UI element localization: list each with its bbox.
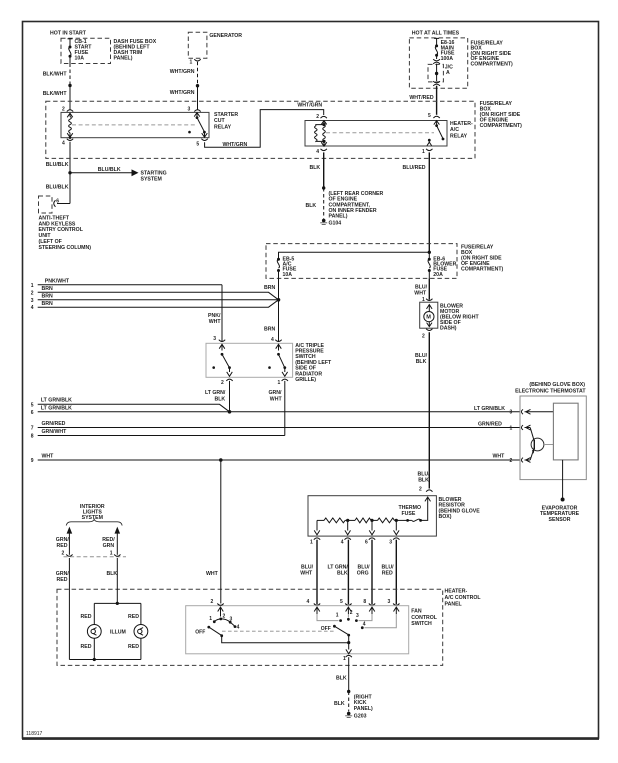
svg-text:10A: 10A: [283, 272, 293, 278]
svg-text:2: 2: [510, 458, 513, 464]
svg-text:STARTER: STARTER: [214, 112, 238, 118]
fuse EB-5 A/C FUSE 10A: [277, 258, 280, 279]
svg-text:4: 4: [363, 622, 366, 628]
svg-text:RELAY: RELAY: [450, 134, 468, 140]
wire WHT/GRN solid: [197, 86, 199, 110]
ground G104: [322, 219, 326, 223]
wire 2 BRN: [38, 292, 279, 300]
A/C triple pressure switch box: [206, 343, 293, 377]
coil heater A/C relay: [321, 121, 326, 125]
svg-text:COMPARTMENT): COMPARTMENT): [471, 62, 514, 68]
svg-text:DASH): DASH): [440, 326, 457, 332]
svg-text:BLK: BLK: [416, 359, 427, 365]
arrow to starting system: [132, 169, 139, 176]
svg-text:5: 5: [340, 599, 343, 605]
pin 4 connector resistor: [345, 538, 351, 540]
resistor R2: [355, 518, 371, 523]
svg-text:2: 2: [419, 487, 422, 493]
svg-text:BRN: BRN: [264, 285, 275, 291]
svg-text:1: 1: [310, 540, 313, 546]
svg-text:WHT/GRN: WHT/GRN: [170, 90, 195, 96]
lamp bottom bus: [69, 659, 140, 661]
generator (dashed box): [188, 32, 207, 58]
internal dashed link: [72, 124, 195, 126]
svg-text:BLU/BLK: BLU/BLK: [98, 167, 121, 173]
svg-text:4: 4: [341, 540, 344, 546]
wire BLU/BLK to starting system: [70, 172, 132, 174]
wire GRN/RED to lamp bus: [68, 558, 70, 660]
connector GRN/RED: [66, 554, 72, 556]
svg-text:WHT/RED: WHT/RED: [409, 95, 433, 101]
connector pair below J/C: [433, 81, 440, 83]
svg-text:BLK: BLK: [215, 396, 226, 402]
svg-text:RED: RED: [57, 543, 68, 549]
svg-text:PANEL: PANEL: [445, 601, 463, 607]
pin 2 connector pressure switch: [226, 379, 232, 381]
pin 3 connector resistor: [393, 538, 399, 540]
svg-text:LT GRN/BLK: LT GRN/BLK: [41, 406, 72, 412]
svg-text:BLK: BLK: [306, 203, 317, 209]
svg-text:COMPARTMENT): COMPARTMENT): [461, 266, 504, 272]
wire 6 LT GRN/BLK to thermostat pin 3: [38, 411, 520, 413]
pin 3 connector starter cut relay: [194, 110, 200, 112]
svg-text:PANEL): PANEL): [329, 214, 348, 220]
svg-text:LT GRN/BLK: LT GRN/BLK: [474, 406, 505, 412]
svg-text:SYSTEM: SYSTEM: [141, 177, 162, 183]
starter cut relay box: [61, 112, 209, 137]
node junction dot: [322, 186, 325, 189]
svg-text:3: 3: [388, 599, 391, 605]
switch arm left rotary: [209, 627, 222, 635]
svg-text:2: 2: [221, 380, 224, 386]
svg-text:BLU/BLK: BLU/BLK: [46, 184, 69, 190]
pin 2 connector blower resistor: [426, 490, 432, 492]
pin 2 connector heater relay: [321, 116, 327, 118]
brace: [66, 519, 122, 525]
svg-text:RED: RED: [81, 614, 92, 620]
svg-text:1: 1: [343, 656, 346, 662]
svg-text:WHT/GRN: WHT/GRN: [297, 102, 322, 108]
svg-text:BLK/WHT: BLK/WHT: [43, 91, 68, 97]
pin 2 connector thermostat: [521, 458, 523, 463]
pin 1 connector heater relay: [426, 149, 432, 151]
wire 5 LT GRN/BLK: [38, 404, 230, 412]
wire BLK fan switch to ground: [348, 657, 350, 691]
svg-text:BLU/RED: BLU/RED: [403, 165, 426, 171]
svg-text:G203: G203: [354, 713, 367, 719]
svg-text:WHT: WHT: [414, 291, 427, 297]
heater A/C relay box: [305, 121, 447, 147]
fuse/relay box top-right (dashed): [409, 38, 467, 88]
svg-text:CUT: CUT: [214, 118, 225, 124]
transistor Q1: [531, 438, 544, 451]
wire 3 BRN: [38, 299, 279, 301]
svg-text:3: 3: [188, 107, 191, 113]
svg-text:BLK: BLK: [107, 571, 118, 577]
svg-text:BLK: BLK: [418, 477, 429, 483]
svg-text:4: 4: [316, 149, 319, 155]
svg-text:4: 4: [271, 337, 274, 343]
pin 2 internal arrow: [525, 458, 531, 463]
svg-text:9: 9: [31, 458, 34, 464]
svg-text:6: 6: [56, 199, 59, 205]
svg-text:LT GRN/: LT GRN/: [205, 390, 226, 396]
fan control switch box: [186, 606, 409, 654]
svg-text:118917: 118917: [26, 731, 43, 737]
svg-text:FAN: FAN: [411, 608, 422, 614]
svg-text:2: 2: [211, 599, 214, 605]
svg-text:HOT IN START: HOT IN START: [50, 31, 87, 37]
node BRN junction: [277, 298, 281, 302]
junction block A (dashed box): [428, 64, 443, 82]
svg-text:STEERING COLUMN): STEERING COLUMN): [39, 245, 92, 251]
arrow up GRN/RED: [67, 527, 73, 534]
svg-text:1: 1: [278, 380, 281, 386]
svg-text:5: 5: [428, 113, 431, 119]
internal dashed link: [326, 132, 434, 134]
switch starter cut relay: [194, 113, 200, 118]
svg-text:PNK/WHT: PNK/WHT: [45, 278, 70, 284]
resistor R3: [378, 518, 395, 523]
electronic thermostat box: [520, 396, 586, 480]
wire BLU/BLK from relay pin 4: [69, 142, 71, 204]
svg-text:WHT: WHT: [42, 454, 55, 460]
inline connector dashes: [64, 556, 127, 558]
svg-text:ORG: ORG: [357, 570, 369, 576]
wire BLK to lamp top bus: [116, 558, 118, 603]
svg-text:HOT AT ALL TIMES: HOT AT ALL TIMES: [412, 31, 460, 37]
pin 1 generator: [194, 59, 200, 61]
pin 1 connector resistor: [314, 538, 320, 540]
svg-text:GENERATOR: GENERATOR: [209, 33, 242, 39]
wire LT GRN/BLK resistor to switch: [347, 540, 349, 605]
svg-text:6: 6: [31, 410, 34, 416]
svg-text:2: 2: [316, 114, 319, 120]
wire LT GRN/BLK from pin 2: [229, 381, 231, 412]
svg-text:3: 3: [230, 616, 233, 622]
pin 1 connector pressure switch: [282, 379, 288, 381]
switch arm right rotary: [334, 626, 348, 635]
wire pin2 to thermo fuse: [422, 504, 428, 521]
heater-A/C control panel box (dashed): [57, 589, 443, 665]
svg-text:A: A: [446, 70, 450, 76]
svg-text:BLK: BLK: [337, 570, 348, 576]
svg-text:GRILLE): GRILLE): [295, 377, 316, 383]
svg-text:STARTING: STARTING: [141, 170, 167, 176]
svg-text:M: M: [426, 315, 431, 321]
wire GRN/WHT from pin 1: [284, 381, 286, 436]
svg-text:WHT: WHT: [493, 454, 506, 460]
svg-text:CONTROL: CONTROL: [411, 615, 437, 621]
svg-text:3: 3: [510, 410, 513, 416]
svg-text:GRN: GRN: [103, 543, 115, 549]
node junction dot: [196, 84, 199, 87]
node junction dot: [228, 410, 232, 414]
switch left (pins 3-2): [219, 344, 225, 350]
svg-text:GRN/RED: GRN/RED: [42, 421, 66, 427]
lamp L2 (ILLUM): [140, 603, 142, 624]
pin 1 connector blower motor: [426, 299, 432, 301]
pin 5 connector heater relay: [433, 116, 439, 118]
svg-text:4: 4: [31, 305, 34, 311]
pin 5 connector fan switch: [345, 604, 351, 606]
svg-text:RELAY: RELAY: [214, 125, 232, 131]
svg-text:GRN/WHT: GRN/WHT: [42, 429, 68, 435]
pin 2 connector blower motor: [426, 329, 432, 331]
anti-theft control unit (dashed box): [39, 196, 53, 213]
resistor chain: [317, 519, 324, 521]
svg-text:2: 2: [62, 551, 65, 557]
wire WHT/GRN dashed from generator: [197, 62, 199, 86]
lamp L1 (ILLUM): [93, 603, 95, 624]
svg-text:WHT: WHT: [270, 396, 283, 402]
svg-text:20A: 20A: [433, 272, 443, 278]
svg-text:BLK: BLK: [336, 676, 347, 682]
pin 1 connector fan switch: [346, 655, 352, 657]
svg-text:HEATER-: HEATER-: [445, 589, 468, 595]
svg-text:1: 1: [110, 551, 113, 557]
svg-text:3: 3: [389, 540, 392, 546]
svg-text:WHT: WHT: [206, 571, 219, 577]
contacts right rotary: [339, 619, 342, 622]
wire BLK from pin 4: [323, 152, 325, 188]
svg-text:(BEHIND GLOVE BOX): (BEHIND GLOVE BOX): [529, 382, 585, 388]
svg-text:6: 6: [365, 540, 368, 546]
svg-text:PANEL): PANEL): [114, 55, 133, 61]
svg-text:RED: RED: [382, 570, 393, 576]
svg-text:1: 1: [190, 60, 193, 66]
node junction dot: [68, 171, 71, 174]
fan switch contact feeds (gray): [317, 614, 339, 621]
fuse E8-16 MAIN FUSE 100A: [434, 38, 439, 59]
svg-text:3: 3: [31, 298, 34, 304]
wire BLU/ORG resistor to switch: [371, 540, 373, 605]
svg-text:1: 1: [510, 425, 513, 431]
wire BLK/WHT solid: [69, 86, 71, 110]
svg-text:100A: 100A: [441, 56, 454, 62]
svg-text:10A: 10A: [75, 55, 85, 61]
svg-text:WHT/GRN: WHT/GRN: [223, 142, 248, 148]
ganged linkage dashed: [222, 630, 334, 632]
connector pair at J/C boundary: [433, 59, 440, 61]
pin 8 connector fan switch: [369, 604, 375, 606]
svg-text:7: 7: [31, 426, 34, 432]
fuse CB-1 START FUSE 10A: [68, 38, 73, 63]
node junction dot: [68, 84, 71, 87]
wire 7 GRN/RED to thermostat pin 1: [38, 427, 520, 429]
pin 3 connector fan switch: [393, 604, 399, 606]
ground G203: [347, 712, 351, 716]
svg-text:3: 3: [213, 336, 216, 342]
contact arc left rotary: [214, 619, 235, 627]
svg-text:RED: RED: [81, 644, 92, 650]
thermostat internal block: [553, 403, 578, 460]
wire to evaporator temperature sensor: [562, 460, 564, 498]
wire BLK dashed to ground: [323, 188, 325, 219]
fuse EB-6 BLOWER FUSE 20A: [428, 252, 431, 278]
wire BLK/WHT dashed segment: [69, 64, 71, 86]
svg-text:8: 8: [363, 599, 366, 605]
pin 5 connector: [201, 139, 207, 141]
wire BLU/WHT to blower motor: [428, 278, 430, 299]
svg-text:WHT/GRN: WHT/GRN: [170, 69, 195, 75]
wire BLU/RED resistor to switch: [395, 540, 397, 605]
fuse/relay box 2 (dashed): [266, 244, 457, 279]
dash fuse box (dashed): [61, 38, 111, 63]
svg-text:BLK/WHT: BLK/WHT: [43, 72, 68, 78]
node junction dot on wire 9: [219, 458, 223, 462]
svg-text:RED: RED: [57, 577, 68, 583]
wire BRN from fuse EB-5 down to junction: [278, 278, 280, 299]
svg-text:BLK: BLK: [310, 165, 321, 171]
svg-text:2: 2: [350, 610, 353, 616]
svg-text:2: 2: [31, 290, 34, 296]
svg-text:BOX): BOX): [439, 514, 452, 520]
svg-text:1: 1: [336, 613, 339, 619]
svg-text:4: 4: [62, 141, 65, 147]
pin 3 internal arrow: [525, 409, 554, 414]
wire BLU/WHT resistor to switch: [316, 540, 318, 605]
svg-text:WHT: WHT: [209, 319, 222, 325]
pin drops inside resistor: [314, 520, 320, 534]
wire arm to bus: [222, 636, 349, 643]
pin 6 connector resistor: [369, 538, 375, 540]
svg-text:BLK: BLK: [334, 701, 345, 707]
wire WHT down to fan switch pin 2: [220, 460, 222, 604]
svg-text:A/C CONTROL: A/C CONTROL: [445, 595, 482, 601]
svg-text:3: 3: [356, 613, 359, 619]
svg-text:RED: RED: [128, 614, 139, 620]
wire BLU/RED from pin 1: [428, 152, 430, 252]
svg-text:2: 2: [62, 107, 65, 113]
wire 4 BRN: [38, 300, 279, 307]
svg-text:8: 8: [31, 434, 34, 440]
wire inside J/C: [436, 64, 438, 81]
svg-text:1: 1: [209, 616, 212, 622]
coil starter cut relay: [67, 113, 73, 117]
svg-text:2: 2: [422, 333, 425, 339]
wire 9 WHT to thermostat pin 2: [38, 459, 520, 461]
wire WHT/RED: [436, 86, 438, 115]
blower motor: [420, 302, 438, 328]
svg-text:5: 5: [196, 142, 199, 148]
svg-text:BRN: BRN: [264, 327, 275, 333]
wire bus inside fuse box: [279, 252, 430, 258]
svg-text:GRN/: GRN/: [269, 390, 283, 396]
wire BLU/BLK motor to resistor: [428, 332, 430, 488]
wire BRN junction to pressure switch pin 4: [278, 300, 280, 341]
svg-text:4: 4: [307, 599, 310, 605]
svg-text:LT GRN/BLK: LT GRN/BLK: [41, 398, 72, 404]
svg-text:SYSTEM: SYSTEM: [82, 515, 103, 521]
svg-text:A/C: A/C: [450, 127, 459, 133]
wire 8 GRN/WHT: [38, 435, 285, 437]
svg-text:OFF: OFF: [195, 630, 205, 636]
blower resistor box: [308, 496, 436, 536]
svg-text:5: 5: [31, 402, 34, 408]
svg-text:COMPARTMENT): COMPARTMENT): [480, 123, 523, 129]
svg-text:BRN: BRN: [42, 301, 53, 307]
svg-text:ELECTRONIC THERMOSTAT: ELECTRONIC THERMOSTAT: [515, 389, 586, 395]
switch right (pins 4-1): [276, 344, 282, 350]
connector RED/GRN: [114, 554, 120, 556]
pin 4 connector heater relay: [321, 149, 327, 151]
pin 6 anti-theft: [54, 200, 56, 206]
pin 3 connector thermostat: [521, 409, 523, 414]
pin 4 connector fan switch: [314, 604, 320, 606]
internal arrows right rotary: [314, 607, 320, 614]
svg-text:BRN: BRN: [42, 294, 53, 300]
svg-text:4: 4: [237, 625, 240, 631]
svg-text:GRN/RED: GRN/RED: [478, 421, 502, 427]
svg-text:SENSOR: SENSOR: [549, 517, 571, 523]
pin 4 connector: [67, 139, 73, 141]
switch heater A/C relay: [436, 121, 438, 126]
svg-text:1: 1: [31, 283, 34, 289]
pin 2 connector starter cut relay: [67, 110, 73, 112]
svg-text:RED: RED: [128, 644, 139, 650]
internal arrow to pin 2: [425, 497, 431, 504]
pin 3 connector pressure switch: [219, 340, 225, 342]
wire WHT/GRN relay5 to heater relay pin2: [205, 110, 324, 148]
svg-text:BLU/BLK: BLU/BLK: [46, 162, 69, 168]
svg-text:1: 1: [422, 149, 425, 155]
svg-text:SWITCH: SWITCH: [411, 621, 432, 627]
node junction dot: [428, 251, 431, 254]
pin 1 connector thermostat: [521, 425, 523, 430]
svg-text:BRN: BRN: [42, 286, 53, 292]
svg-text:FUSE: FUSE: [402, 511, 416, 517]
wire 1 PNK/WHT: [38, 284, 222, 286]
svg-text:2: 2: [223, 614, 226, 620]
pin 1 internal arrow: [525, 425, 531, 430]
svg-text:HEATER-: HEATER-: [450, 121, 473, 127]
fuse/relay box (dashed, around both relays): [46, 101, 475, 158]
node junction dot: [435, 72, 438, 75]
arrow up RED/GRN: [115, 527, 121, 534]
pin 4 connector pressure switch: [275, 340, 281, 342]
lamp top bus: [94, 602, 141, 604]
thermo fuse: [419, 519, 422, 522]
svg-text:G104: G104: [329, 220, 342, 226]
resistor R1: [324, 518, 345, 523]
svg-text:WHT: WHT: [300, 570, 313, 576]
wire to pin 1: [346, 643, 352, 654]
svg-text:ILLUM: ILLUM: [110, 630, 126, 636]
svg-text:PANEL): PANEL): [354, 706, 373, 712]
